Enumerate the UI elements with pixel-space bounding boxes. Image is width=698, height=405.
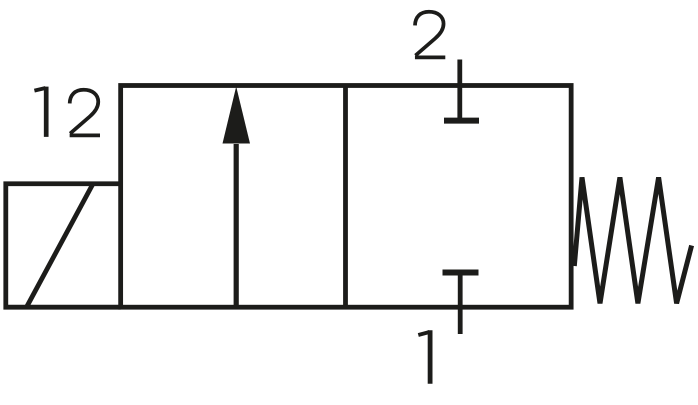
label 12 : digit 2 bbox=[70, 90, 100, 136]
label 2 (top port) bbox=[415, 12, 445, 58]
valve body (two-position box) bbox=[121, 86, 572, 308]
return spring bbox=[574, 177, 691, 303]
label 12 : digit 1 bbox=[34, 87, 46, 137]
port 2 seat crossbar bbox=[444, 118, 479, 124]
position divider wire bbox=[343, 86, 348, 308]
port 1 seat crossbar bbox=[443, 270, 479, 276]
flow arrow head bbox=[223, 87, 251, 144]
solenoid coil box bbox=[6, 184, 121, 307]
solenoid diagonal bbox=[27, 184, 94, 307]
label 1 (bottom port) bbox=[418, 330, 430, 384]
port 1 wire bbox=[458, 273, 463, 335]
flow arrow shaft bbox=[234, 144, 239, 307]
port 2 wire bbox=[457, 60, 462, 121]
